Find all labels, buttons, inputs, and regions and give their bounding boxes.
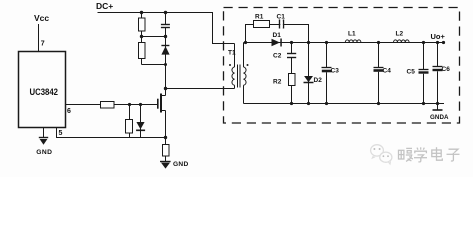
svg-text:C6: C6 [442,66,451,73]
svg-text:Vcc: Vcc [34,13,49,23]
svg-text:R2: R2 [273,79,282,86]
svg-text:D2: D2 [314,77,323,84]
svg-text:C2: C2 [273,53,282,60]
svg-text:GNDA: GNDA [430,114,449,121]
svg-text:C4: C4 [383,67,392,74]
svg-text:L1: L1 [348,31,356,38]
svg-text:5: 5 [59,130,63,137]
svg-text:Uo+: Uo+ [431,32,446,41]
svg-text:GND: GND [36,149,52,156]
svg-text:GND: GND [173,161,189,168]
svg-text:DC+: DC+ [96,1,113,11]
svg-text:L2: L2 [396,31,404,38]
svg-text:C5: C5 [407,68,416,75]
svg-text:6: 6 [67,108,71,115]
svg-text:T1: T1 [228,50,236,57]
svg-text:D1: D1 [273,32,282,39]
svg-text:7: 7 [41,41,45,48]
svg-text:C1: C1 [277,14,286,21]
svg-text:C3: C3 [331,67,340,74]
svg-text:R1: R1 [255,14,264,21]
svg-text:UC3842: UC3842 [30,87,59,97]
